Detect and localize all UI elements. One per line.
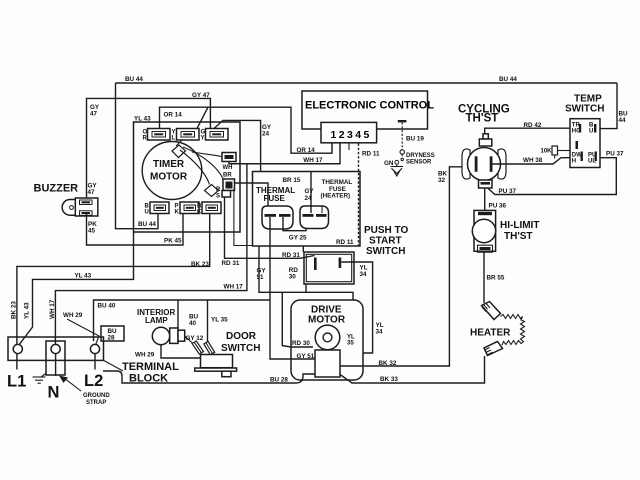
door switch contact arm right [204, 342, 215, 355]
svg-text:WH: WH [223, 165, 233, 171]
terminal block box [8, 337, 104, 360]
thermal fuse F1 body [262, 206, 293, 229]
wire stub fuse F2 right slot [321, 207, 323, 214]
wire YL35 riser to door switch [207, 300, 209, 344]
svg-text:LAMP: LAMP [145, 316, 168, 325]
terminal L2 [90, 344, 99, 353]
heater bottom cone terminal [484, 342, 503, 356]
wire BU28 terminal block to motor [103, 371, 315, 383]
timer cam 2 (rotated) [205, 185, 219, 197]
svg-text:GY 25: GY 25 [289, 235, 307, 242]
svg-text:TIMER: TIMER [153, 159, 185, 170]
svg-text:OR 14: OR 14 [297, 147, 316, 154]
terminal N [51, 344, 60, 353]
svg-text:L1: L1 [7, 373, 26, 391]
timer WH connector [222, 153, 236, 162]
push-to-start switch box [304, 252, 354, 284]
heater element zigzag [501, 315, 525, 346]
hi-limit thermostat body [474, 210, 496, 251]
svg-text:PU 37: PU 37 [606, 151, 624, 158]
cycling thermostat bottom tab [479, 180, 493, 188]
svg-text:28: 28 [108, 335, 116, 342]
wire BU19 to dryness sensor (dashed) [398, 120, 407, 122]
svg-text:10K: 10K [541, 149, 553, 155]
svg-text:34: 34 [376, 329, 384, 336]
svg-text:34: 34 [360, 271, 368, 278]
thermal fuse F1 slots [265, 214, 277, 217]
svg-text:32: 32 [438, 177, 446, 184]
wire BR55 hi-limit to heater [483, 252, 485, 303]
svg-text:SWITCH: SWITCH [221, 343, 260, 354]
thermal fuse F2 (heater) body [300, 206, 329, 229]
wire RD42 cycling to temp switch [485, 128, 570, 134]
svg-text:40: 40 [189, 320, 197, 327]
svg-text:BK 23: BK 23 [191, 261, 209, 268]
svg-text:WH 17: WH 17 [224, 284, 244, 291]
svg-text:TERMINAL: TERMINAL [122, 361, 179, 373]
svg-text:35: 35 [347, 341, 354, 347]
terminal block N sub-box [46, 341, 65, 375]
wire WH29 lamp bottom to switch [161, 345, 201, 358]
wire WH38 cycling to temp switch [493, 158, 571, 164]
wire BK32 motor to cycling thermostat [340, 167, 464, 366]
svg-text:L2: L2 [84, 372, 103, 390]
svg-text:DOOR: DOOR [226, 331, 257, 342]
svg-text:YL 43: YL 43 [75, 273, 92, 280]
svg-text:WH 17: WH 17 [303, 157, 323, 164]
temp switch middle contact [576, 141, 579, 149]
svg-text:12345: 12345 [331, 129, 372, 141]
svg-text:BR 15: BR 15 [283, 177, 301, 184]
cycling thermostat body [462, 149, 470, 179]
wire GY25 link between fuses [283, 217, 306, 231]
wire RD11 stub into push-to-start top [302, 246, 304, 252]
svg-text:44: 44 [619, 117, 627, 124]
interior lamp / door switch enclosure top edge [94, 300, 271, 341]
door switch base plate [195, 368, 237, 371]
drive motor box [291, 300, 363, 380]
svg-text:RD 30: RD 30 [292, 340, 310, 347]
drive motor connector block [315, 350, 340, 377]
terminal L2 stub [94, 354, 96, 370]
wire GY24 riser into fuse F2 [310, 172, 312, 214]
wire GY47 buzzer riser and top run [87, 98, 211, 200]
svg-text:YL 35: YL 35 [211, 317, 228, 324]
svg-text:H: H [572, 159, 576, 165]
wire YL43 timer box edge to terminal block [19, 232, 134, 346]
timer cam follower curves [192, 152, 222, 157]
svg-text:TH'ST: TH'ST [504, 231, 533, 242]
wire BU44 riser to temp switch [600, 83, 617, 129]
wire BU44 main top run [116, 82, 618, 84]
door switch body [201, 355, 233, 368]
svg-text:BK 32: BK 32 [379, 360, 397, 367]
door switch foot [222, 371, 231, 377]
svg-text:BU 44: BU 44 [138, 221, 156, 228]
svg-text:U: U [589, 129, 593, 135]
svg-text:WH 17: WH 17 [49, 299, 56, 319]
interior lamp bulb [152, 327, 169, 344]
svg-text:GROUND: GROUND [83, 393, 110, 399]
svg-text:51: 51 [257, 274, 265, 281]
svg-text:BR: BR [223, 173, 232, 179]
timer motor circle [142, 142, 202, 200]
wire GY51 fuse to motor [270, 217, 316, 359]
svg-text:BU 19: BU 19 [406, 136, 424, 143]
temp switch box [570, 119, 600, 168]
svg-text:45: 45 [88, 228, 96, 235]
timer cam 1 (rotated) [172, 145, 186, 158]
wire BK33 motor to heater [340, 356, 485, 383]
dryness sensor circle [400, 150, 404, 154]
svg-text:BR 55: BR 55 [487, 275, 505, 282]
wire WH29 diagonal to L2 [67, 319, 99, 345]
wire OR14 diagonal from Y/L terminal [197, 107, 208, 128]
svg-text:OR 14: OR 14 [164, 112, 183, 119]
heater top cone terminal [482, 302, 501, 320]
wire YL34 switch to motor [341, 262, 372, 353]
terminal L1 [13, 344, 22, 353]
svg-text:BLOCK: BLOCK [129, 373, 168, 385]
ground symbol (terminal block) [41, 373, 47, 377]
svg-text:START: START [369, 236, 402, 247]
terminal block pointer line [104, 361, 123, 372]
wire OR14 timer to electronic control [160, 107, 333, 153]
svg-text:MOTOR: MOTOR [150, 172, 188, 183]
svg-text:BK 23: BK 23 [11, 301, 18, 319]
svg-text:U: U [145, 210, 149, 216]
door switch contact arm left [192, 341, 204, 354]
svg-text:MOTOR: MOTOR [308, 315, 346, 326]
svg-text:L: L [172, 136, 176, 142]
svg-text:HEATER: HEATER [470, 328, 511, 339]
wire PK45 buzzer to timer PK terminal [87, 214, 184, 246]
wire BU44 left vertical to timer BU terminal [116, 83, 159, 229]
svg-text:GY 12: GY 12 [186, 335, 204, 342]
svg-text:RD 11: RD 11 [362, 150, 380, 157]
10K resistor [552, 146, 558, 155]
wire WH17 timer/control/terminal-N net [229, 144, 340, 164]
svg-text:PU 37: PU 37 [499, 188, 517, 195]
wire BU40 lamp riser [177, 300, 179, 328]
buzzer BZ1 body [62, 200, 77, 216]
svg-text:PK 45: PK 45 [164, 238, 182, 245]
svg-text:BK 33: BK 33 [380, 376, 398, 383]
svg-text:K: K [175, 210, 180, 216]
ground strap arrow [66, 380, 81, 392]
push-to-start contact pins [314, 258, 317, 271]
svg-text:WH 38: WH 38 [523, 157, 543, 164]
svg-text:BU 40: BU 40 [98, 303, 116, 310]
buzzer terminal slot top [80, 200, 93, 205]
svg-text:RD 42: RD 42 [524, 122, 542, 129]
svg-text:HI-LIMIT: HI-LIMIT [500, 220, 539, 231]
svg-text:DRYNESS: DRYNESS [406, 153, 435, 159]
svg-text:ELECTRONIC CONTROL: ELECTRONIC CONTROL [305, 100, 434, 112]
svg-text:RD 11: RD 11 [336, 239, 354, 246]
wire RD30 switch bottom to motor [259, 246, 306, 292]
svg-text:Y: Y [201, 136, 205, 142]
svg-text:BUZZER: BUZZER [34, 183, 79, 195]
svg-text:24: 24 [305, 195, 313, 202]
svg-text:BU 44: BU 44 [125, 76, 143, 83]
thermal fuse enclosure box [253, 172, 361, 247]
control pin stubs [331, 143, 333, 150]
svg-text:PU 36: PU 36 [489, 202, 507, 209]
svg-text:FUSE: FUSE [264, 194, 286, 203]
wire PU36 cycling to hi-limit [484, 188, 486, 210]
svg-text:YL 43: YL 43 [134, 116, 151, 123]
svg-text:PUSH TO: PUSH TO [364, 225, 408, 236]
wire BR riser stub to fuse box corner [234, 189, 253, 246]
svg-text:STRAP: STRAP [86, 400, 106, 406]
buzzer terminal slot bottom [80, 211, 93, 216]
timer cam1 link to terminal [176, 140, 182, 146]
svg-text:WH 29: WH 29 [135, 352, 155, 359]
cycling contacts [475, 156, 478, 172]
wire RD31 timer R/S to push-to-start [225, 197, 315, 258]
svg-text:30: 30 [289, 274, 297, 281]
BU28 connector box on block [101, 326, 124, 341]
svg-text:RD 31: RD 31 [282, 252, 300, 259]
svg-text:47: 47 [90, 111, 98, 118]
svg-text:WH 29: WH 29 [63, 312, 83, 319]
svg-text:SWITCH: SWITCH [565, 104, 604, 115]
cycling thermostat top tab [483, 134, 488, 139]
svg-text:47: 47 [88, 189, 96, 196]
svg-text:N: N [48, 384, 60, 402]
svg-text:R: R [216, 187, 221, 193]
svg-text:S: S [216, 194, 220, 200]
thermal fuse F2 slots [303, 214, 314, 217]
svg-text:SENSOR: SENSOR [406, 160, 432, 166]
svg-text:RD 31: RD 31 [222, 260, 240, 267]
svg-text:GY 51: GY 51 [297, 353, 315, 360]
svg-text:BU 44: BU 44 [499, 76, 517, 83]
wire GY24 timer to heater fuse [214, 120, 261, 171]
drive motor rotor circles [315, 325, 340, 350]
timer motor box [134, 122, 241, 232]
svg-text:GY 47: GY 47 [192, 92, 210, 99]
wire GY12 lamp to door switch [185, 336, 194, 345]
svg-text:YL 43: YL 43 [24, 302, 31, 319]
svg-text:SWITCH: SWITCH [366, 246, 405, 257]
svg-text:TH'ST: TH'ST [466, 113, 499, 125]
wire PU37 temp switch to cycling bottom [488, 158, 617, 195]
wire BR15 timer BR to thermal fuse [235, 183, 269, 214]
svg-text:BU 28: BU 28 [270, 377, 288, 384]
wire RD11 control pin to switch (dashed riser) [358, 144, 360, 247]
ground symbol (dryness sensor) [395, 160, 399, 164]
svg-text:(HEATER): (HEATER) [321, 193, 351, 200]
electronic control box [302, 91, 428, 129]
interior lamp socket [170, 328, 178, 343]
electronic control pin box 1 2 3 4 5 [321, 122, 377, 142]
svg-text:24: 24 [262, 131, 270, 138]
wire BK23 timer BK to terminal L1 [17, 214, 210, 345]
